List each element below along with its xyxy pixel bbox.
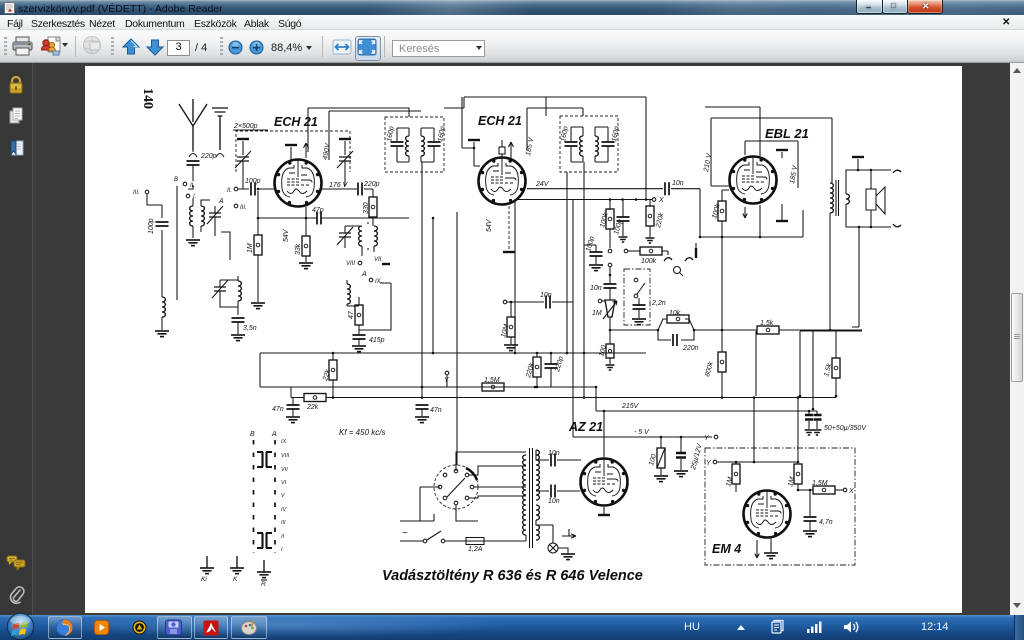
IF transformer T1 dashed box — [385, 117, 444, 172]
capacitor 220p antenna — [187, 161, 200, 165]
fit width button — [330, 38, 354, 58]
svg-text:ECH 21: ECH 21 — [478, 114, 522, 128]
resistor 10M — [510, 302, 512, 317]
svg-text:10n: 10n — [548, 498, 560, 505]
capacitor 10n detector — [665, 182, 669, 195]
svg-text:AZ 21: AZ 21 — [568, 420, 603, 434]
svg-text:33k: 33k — [295, 243, 302, 255]
svg-text:1M: 1M — [247, 243, 254, 253]
svg-text:160p: 160p — [386, 126, 396, 143]
mains switch — [423, 539, 427, 543]
svg-text:800k: 800k — [704, 361, 715, 378]
svg-text:EBL 21: EBL 21 — [765, 126, 809, 141]
pickup resistor 100k — [624, 249, 628, 253]
svg-text:EM 4: EM 4 — [712, 542, 741, 556]
diode load wire X — [515, 200, 652, 206]
pointer arrow — [562, 529, 576, 538]
svg-text:1,2A: 1,2A — [468, 546, 483, 553]
bus HT y397 — [291, 387, 836, 398]
trimmer capacitor A — [209, 213, 221, 217]
svg-text:VIII: VIII — [346, 261, 355, 267]
svg-text:54V: 54V — [486, 218, 493, 232]
taskbar — [0, 615, 1024, 640]
capacitor 415p — [353, 335, 366, 339]
resistor 1,5M — [447, 386, 482, 388]
electrolytic 50+50u — [809, 411, 817, 414]
svg-text:Y: Y — [704, 435, 710, 442]
svg-text:B: B — [250, 431, 255, 438]
svg-text:1M: 1M — [787, 476, 796, 487]
ground below L1 — [186, 240, 200, 246]
coils T2 — [580, 136, 583, 156]
svg-text:50+50µ/350V: 50+50µ/350V — [824, 425, 867, 432]
tone switch contacts — [634, 278, 638, 282]
resistor 1M — [257, 191, 259, 302]
plate feed vertical 210V — [705, 107, 832, 186]
vertical osc feed — [432, 218, 434, 353]
filament windings — [536, 505, 539, 520]
capacitor 47p on grid2 wire — [258, 217, 409, 219]
dial lamp — [536, 520, 553, 543]
top bus 490V — [444, 97, 646, 108]
pages icon — [9, 107, 24, 127]
white page — [85, 66, 962, 613]
ground K — [236, 556, 238, 568]
capacitor 100p AF — [584, 245, 596, 252]
svg-text:10n: 10n — [540, 292, 552, 299]
svg-text:220p: 220p — [554, 356, 565, 374]
svg-text:VIII: VIII — [281, 453, 290, 459]
title bar — [0, 0, 1024, 15]
svg-text:54V: 54V — [283, 228, 290, 242]
svg-text:Ki: Ki — [201, 576, 207, 583]
svg-text:V: V — [281, 493, 286, 499]
resistor 1M right — [794, 464, 802, 484]
oscillator transformer — [359, 226, 362, 246]
svg-text:10n: 10n — [672, 180, 684, 187]
B+ row — [722, 329, 800, 331]
resistor 22k vertical — [332, 353, 334, 360]
svg-text:1,5M: 1,5M — [812, 480, 828, 487]
comment bubbles icon — [6, 555, 26, 571]
svg-text:2×500p: 2×500p — [233, 123, 258, 130]
svg-text:100p: 100p — [148, 218, 155, 234]
svg-text:10n: 10n — [590, 285, 602, 292]
gramophone circle — [674, 267, 681, 274]
svg-text:220p: 220p — [200, 153, 217, 160]
svg-text:1,5k: 1,5k — [760, 320, 774, 327]
wire left column — [147, 186, 230, 300]
toolbar — [0, 30, 1024, 63]
capacitor 10n AF — [604, 284, 617, 288]
svg-text:490V: 490V — [322, 142, 332, 161]
earth symbol top — [212, 108, 228, 150]
globe grayed icon — [81, 35, 104, 58]
coils T1 — [406, 136, 409, 156]
svg-text:A: A — [361, 271, 367, 278]
capacitor 160p T1 left — [391, 142, 404, 146]
switch brackets top — [257, 452, 272, 467]
svg-text:100k: 100k — [641, 258, 657, 265]
gang capacitor section 1 — [237, 138, 249, 140]
ground 415p — [352, 346, 366, 352]
svg-text:100p: 100p — [245, 178, 261, 185]
svg-text:160p: 160p — [560, 126, 570, 143]
svg-text:VII.: VII. — [374, 257, 383, 263]
up arrow — [121, 38, 141, 57]
capacitor 2,2n — [633, 305, 646, 309]
tray — [684, 621, 700, 633]
rectifier plate wires + 10n caps — [536, 450, 581, 491]
svg-text:III.: III. — [133, 190, 140, 196]
svg-text:47n: 47n — [272, 406, 284, 413]
pickup jack hooks — [664, 258, 693, 261]
resistor 33k — [305, 207, 307, 262]
svg-text:47p: 47p — [312, 207, 324, 214]
capacitor 220p AF — [550, 353, 552, 387]
primary winding — [523, 455, 526, 535]
ground 33k — [299, 263, 313, 269]
svg-text:415p: 415p — [369, 337, 385, 344]
paperclip icon — [8, 585, 25, 606]
vertical to 215V bus — [812, 331, 814, 409]
down arrow — [145, 38, 165, 57]
zoom out — [228, 40, 243, 55]
zoom in — [249, 40, 264, 55]
svg-text:1M: 1M — [725, 476, 734, 487]
capacitor 3,5n — [232, 318, 245, 322]
svg-text:220n: 220n — [682, 345, 699, 352]
svg-text:B: B — [174, 177, 178, 183]
speaker leads — [846, 170, 891, 227]
tone switch dash-dot box — [624, 269, 650, 325]
svg-text:10M: 10M — [500, 323, 510, 338]
bus -5V — [610, 436, 712, 438]
resistor 100k AVC — [609, 200, 611, 211]
mains transformer core — [530, 448, 533, 548]
resistor 220k AF — [536, 353, 538, 387]
svg-text:VI: VI — [281, 480, 287, 486]
svg-text:22k: 22k — [306, 404, 319, 411]
printer icon — [11, 36, 34, 57]
resistor 10k / capacitor 220n series loop — [610, 319, 722, 340]
HV secondary winding — [536, 450, 539, 500]
capacitor 4,7n — [809, 490, 811, 516]
svg-text:47n: 47n — [430, 407, 442, 414]
svg-text:A: A — [218, 198, 224, 205]
svg-text:1M: 1M — [592, 310, 602, 317]
wires inside T2 — [571, 127, 608, 162]
ground 3,5n — [231, 335, 245, 341]
menu bar — [0, 15, 1024, 30]
bus 215V — [596, 387, 817, 411]
cathode ground bar V3 — [781, 204, 783, 220]
terminal III. below — [234, 204, 238, 208]
svg-text:210 V: 210 V — [703, 152, 713, 174]
anode wire 176V with capacitor 220p — [322, 188, 373, 190]
resistor 800k — [718, 352, 726, 372]
vertical heater wire — [456, 212, 458, 465]
bus AVC y353 — [260, 352, 646, 354]
scrollbar — [1010, 63, 1024, 615]
speaker — [866, 187, 885, 214]
capacitor 160p T2 left — [565, 142, 578, 146]
ground R — [263, 560, 265, 572]
start orb — [2, 613, 39, 640]
coupling coil osc — [347, 284, 350, 304]
capacitor 10n coupling — [503, 300, 507, 304]
grid cap bar V1 — [285, 144, 297, 146]
svg-text:ECH 21: ECH 21 — [274, 115, 318, 129]
oscillator trimmer — [339, 233, 351, 237]
svg-text:A: A — [271, 431, 277, 438]
svg-text:II.: II. — [190, 183, 195, 189]
svg-text:100p: 100p — [585, 236, 596, 253]
wire T1 secondary down — [421, 162, 423, 398]
gang capacitor section 2 — [339, 138, 351, 140]
capacitor 100p left — [156, 222, 169, 226]
electrolytic 25u/12V — [680, 437, 682, 452]
svg-text:Y: Y — [706, 460, 712, 467]
svg-text:215V: 215V — [621, 403, 640, 410]
AZ21 filament bar below — [603, 507, 605, 514]
svg-text:220k: 220k — [655, 212, 666, 230]
fuse 1,2A — [445, 540, 466, 542]
capacitor 47n right — [416, 405, 429, 409]
svg-text:2,2n: 2,2n — [651, 300, 666, 307]
tuning gang dashed outline 2x500p — [236, 131, 350, 172]
svg-text:VII: VII — [281, 467, 288, 473]
resistor 1,5M EM4 — [798, 489, 813, 491]
switch contacts AVC — [608, 249, 612, 253]
transformer primary bottom vertical — [829, 213, 831, 330]
taskbar app buttons — [48, 616, 82, 639]
antenna — [179, 99, 207, 150]
potentiometer 1M — [605, 300, 615, 317]
svg-text:1,5M: 1,5M — [484, 377, 500, 384]
antenna coil L1 — [190, 206, 193, 226]
vertical to HT bus — [799, 331, 801, 396]
switch brackets bottom — [257, 533, 272, 548]
svg-text:- 5 V: - 5 V — [634, 429, 650, 436]
selector internal stub — [447, 478, 465, 497]
wire V2 anode to T2 — [527, 97, 583, 150]
svg-text:IX.: IX. — [375, 279, 382, 285]
speaker return vertical — [852, 227, 859, 327]
svg-text:24V: 24V — [535, 181, 550, 188]
cathode arrow V3 — [743, 207, 747, 218]
svg-text:3,5n: 3,5n — [243, 325, 257, 332]
svg-text:IX: IX — [281, 439, 287, 445]
output transformer primary — [830, 183, 833, 203]
terminal IX. — [369, 278, 373, 282]
vertical det x646 — [645, 97, 647, 200]
voltage selector dashed circle — [434, 465, 478, 509]
bus detector to EBL — [700, 210, 803, 237]
svg-text:II.: II. — [227, 188, 232, 194]
AZ21 plate feed vertical — [603, 411, 605, 457]
resistor 220k — [649, 200, 651, 207]
svg-text:X: X — [848, 488, 854, 495]
svg-text:X: X — [658, 197, 664, 204]
vertical x515 — [514, 200, 516, 354]
resistor 1,5k horizontal — [757, 326, 779, 334]
svg-text:176 V: 176 V — [329, 182, 349, 189]
person/share icon — [40, 35, 64, 58]
mains input — [400, 521, 416, 541]
screen grid feed — [745, 141, 798, 188]
T2 secondary leads down — [567, 162, 610, 437]
svg-text:160p: 160p — [437, 126, 447, 143]
tube V5 EM4 — [744, 491, 791, 538]
svg-text:Vadásztöltény R 636 és R 646: Vadásztöltény R 636 és R 646 Velence — [382, 568, 643, 584]
AVC dashed feed — [508, 206, 510, 250]
capacitor 160p T1 right — [428, 142, 441, 146]
feed verticals from bus — [754, 331, 798, 462]
terminal Y left — [445, 371, 449, 375]
svg-text:~: ~ — [402, 528, 408, 539]
selector left feed — [420, 487, 440, 521]
wire anode V1 to T1 — [308, 108, 421, 160]
capacitor 100p det — [622, 200, 624, 218]
padder trimmer — [214, 287, 226, 291]
svg-text:III: III — [281, 520, 286, 526]
svg-text:100p: 100p — [613, 219, 624, 236]
terminal Y mid — [714, 435, 718, 439]
resistor 47 — [355, 305, 363, 325]
capacitor 160p T2 right — [602, 142, 615, 146]
resistor 100 bias — [660, 437, 662, 448]
wire antenna to terminal B — [188, 165, 193, 189]
transformer top cap bar — [852, 156, 864, 158]
svg-text:II: II — [281, 534, 285, 540]
grid cap connector V2 — [499, 147, 505, 154]
svg-text:III.: III. — [240, 205, 247, 211]
screen bypass bar V2 — [468, 139, 480, 141]
output transformer secondary — [846, 194, 849, 204]
svg-text:10k: 10k — [669, 310, 681, 317]
svg-text:25µ/12V: 25µ/12V — [690, 442, 704, 471]
resistor 330 — [372, 189, 374, 197]
lock icon — [8, 75, 24, 95]
wire 24V anode V2 — [527, 188, 663, 190]
ground 1M — [251, 303, 265, 309]
svg-text:220p: 220p — [363, 181, 380, 188]
ground Ki — [206, 556, 208, 568]
EM4 dash-dot box — [705, 448, 855, 565]
bus ground y387 — [260, 353, 596, 387]
ground below L2 — [155, 331, 169, 337]
terminal X EM4 — [835, 489, 843, 491]
anode arrow V1 — [304, 143, 309, 158]
svg-text:Kf = 450 kc/s: Kf = 450 kc/s — [339, 428, 385, 437]
resistor 22k series — [304, 394, 326, 402]
svg-text:K: K — [233, 576, 238, 583]
IF transformer T2 dashed box — [560, 116, 618, 172]
svg-text:IV: IV — [281, 507, 288, 513]
svg-text:160p: 160p — [611, 126, 621, 143]
terminal I. — [186, 194, 190, 198]
svg-text:47: 47 — [348, 310, 355, 319]
svg-text:140: 140 — [140, 88, 155, 109]
resistor 1,5k screen — [835, 331, 837, 358]
resistor 100k EBL grid — [722, 190, 729, 201]
pdf app icon — [4, 2, 15, 14]
svg-text:R: R — [261, 581, 266, 588]
padder coil — [238, 281, 241, 301]
anode arrow V2 — [509, 142, 514, 158]
svg-text:330: 330 — [363, 202, 370, 214]
grid bar V3 — [776, 149, 788, 151]
fit page button (selected) — [355, 36, 381, 61]
bookmark icon — [9, 140, 24, 160]
svg-text:I: I — [281, 547, 283, 553]
capacitor 100p grid — [238, 188, 275, 190]
svg-text:4,7n: 4,7n — [819, 519, 833, 526]
selector to transformer wires — [456, 452, 526, 521]
EM4 cathode arrow + ground — [755, 540, 759, 558]
wires inside T1 — [397, 128, 434, 162]
capacitor 47n left — [292, 398, 294, 406]
oscillator coil L2 — [162, 297, 165, 317]
svg-text:10n: 10n — [548, 450, 560, 457]
resistor 1M left — [732, 464, 740, 484]
